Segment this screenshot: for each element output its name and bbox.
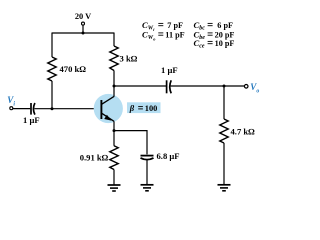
svg-text:7 pF: 7 pF [167,21,183,30]
resistor 470 kOhm [48,57,56,81]
wire 3k bottom to collector node [113,71,115,87]
resistor 0.91 kOhm [110,146,118,170]
svg-text:1 μF: 1 μF [161,65,178,75]
wire 4.7k to ground [223,143,225,185]
ground under 0.91k [108,185,121,191]
capacitor C3 6.8uF bypass [141,151,180,161]
svg-text:3 kΩ: 3 kΩ [120,54,138,64]
value label Cbe = 20 pF [194,30,235,42]
wire 4.7k branch top [223,86,225,119]
svg-text:0.91 kΩ: 0.91 kΩ [80,153,109,163]
capacitor C2 1uF output [161,65,178,93]
wire output node to terminal [224,85,244,87]
wire emitter node to bypass capacitor [114,131,147,155]
value label Cbc = 6 pF [194,20,234,32]
wire 6.8uF to ground [146,160,148,185]
junction supply node [82,32,85,35]
svg-text:100: 100 [145,104,158,113]
wire emitter lead [113,121,115,130]
node Vi input terminal [7,95,15,110]
wire 0.91k to ground [113,170,115,186]
junction collector node [113,85,116,88]
wire 3k branch top [113,33,115,47]
junction output node [223,85,226,88]
svg-text:6.8 μF: 6.8 μF [157,151,180,161]
wire emitter node down [113,131,115,146]
wire collector lead [113,86,115,97]
resistor 3 kOhm [110,46,118,71]
junction emitter node [113,129,116,132]
value label CWo = 11 pF [142,30,185,42]
supply terminal 20 V [75,12,91,33]
value label CWi = 7 pF [142,20,183,32]
wire top supply rail [52,32,114,34]
svg-text:4.7 kΩ: 4.7 kΩ [231,127,256,137]
value label Cce = 10 pF [194,38,235,50]
wire capacitor to base node [34,108,52,110]
svg-text:20 V: 20 V [75,12,91,21]
svg-text:6 pF: 6 pF [217,21,233,30]
wire base node to transistor base [52,108,101,110]
wire output capacitor to output node [171,85,224,87]
wire collector node to output capacitor [114,85,166,87]
svg-text:1 μF: 1 μF [23,115,40,125]
svg-text:11 pF: 11 pF [165,31,184,40]
resistor 4.7 kOhm [220,119,228,143]
ground under 6.8uF [141,185,154,191]
svg-text:470 kΩ: 470 kΩ [60,64,87,74]
capacitor C1 1uF input [23,103,40,125]
beta label box [127,102,161,113]
ground under 4.7k [218,185,231,191]
wire 470k branch top [51,33,53,58]
svg-text:β: β [129,103,135,113]
node Vo output terminal [244,82,259,94]
junction base node [51,107,54,110]
wire input to capacitor [13,108,31,110]
wire 470k branch bottom [51,81,53,109]
svg-text:10 pF: 10 pF [215,39,235,48]
transistor Q1 [94,94,123,123]
